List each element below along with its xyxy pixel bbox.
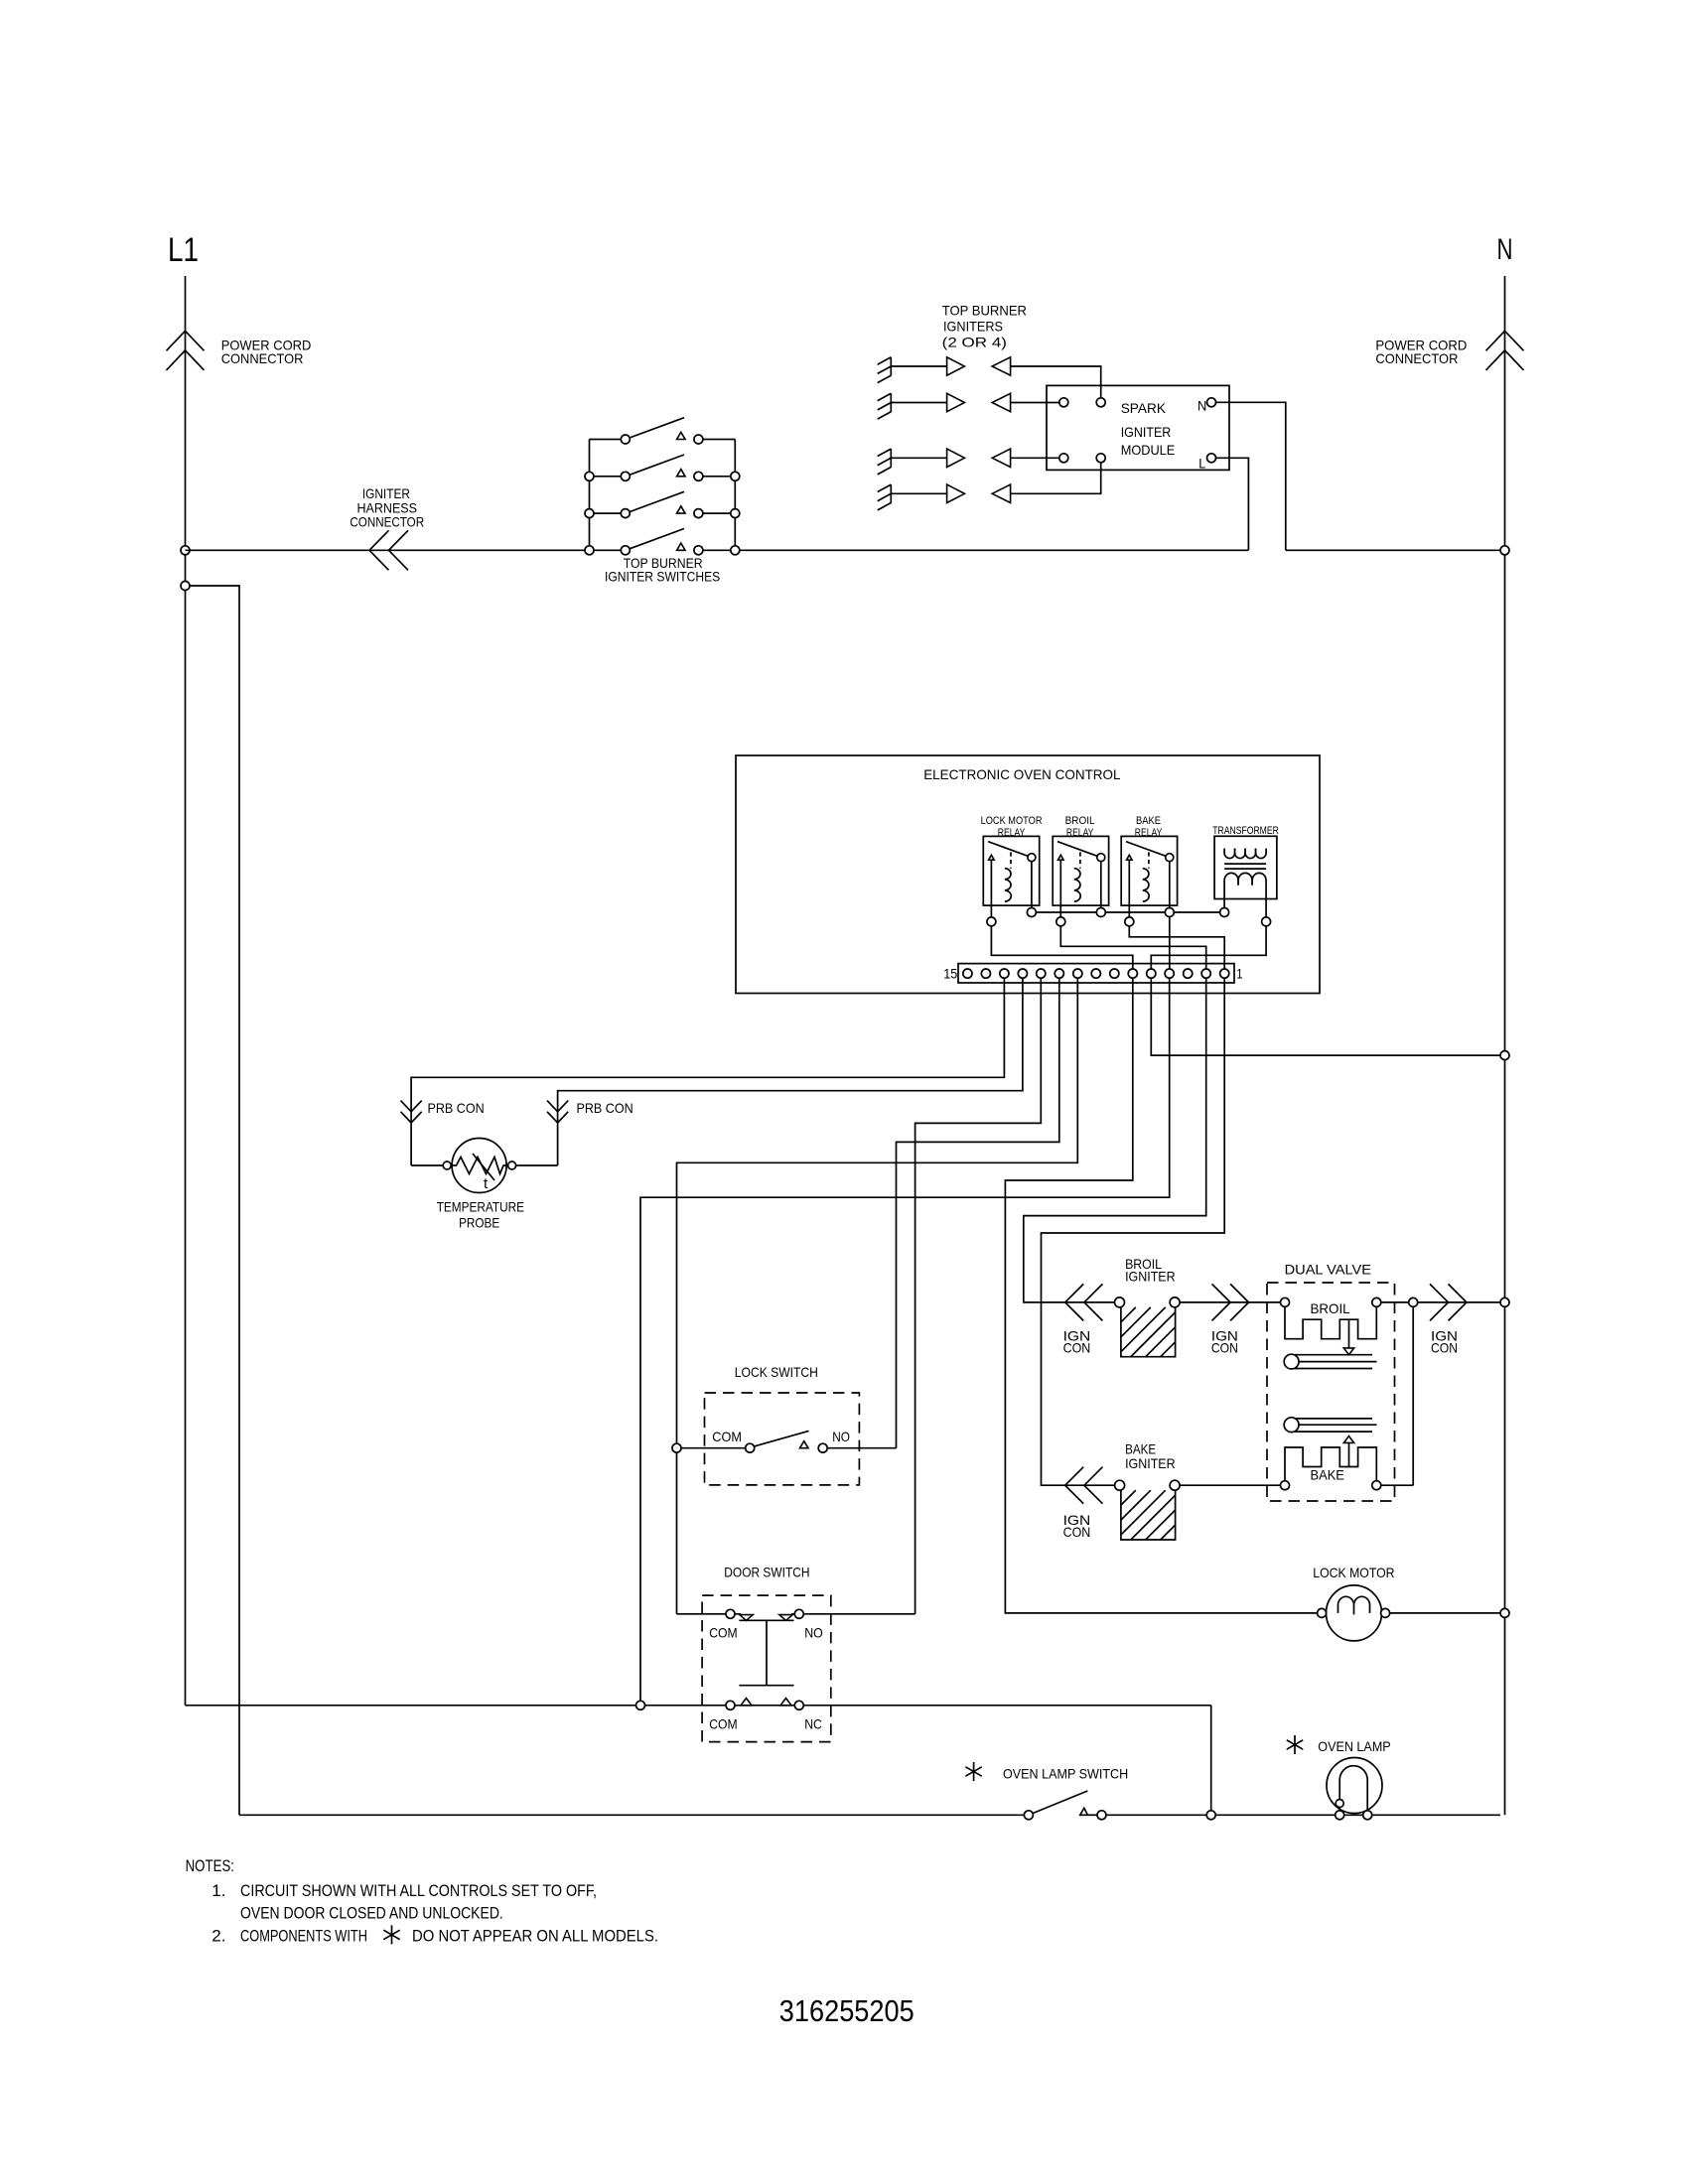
wire terminal 6 to lock motor (1005, 978, 1321, 1613)
wire probe left lead (411, 1164, 443, 1166)
oven lamp switch S7 (1024, 1791, 1106, 1820)
door switch lower NC terminal (794, 1701, 803, 1709)
wire relay common line (relay pivots to transformer) (1032, 911, 1224, 913)
label NO (lock switch) (832, 1429, 850, 1444)
label COM (lock switch) (712, 1429, 742, 1444)
svg-text:LOCK MOTOR: LOCK MOTOR (1313, 1565, 1394, 1580)
temperature probe thermistor mark t (473, 1154, 494, 1192)
svg-text:NOTES:: NOTES: (186, 1856, 234, 1875)
label IGN CON (bake left) (1063, 1512, 1091, 1540)
lock switch blade (755, 1431, 809, 1446)
svg-text:COMPONENTS WITH: COMPONENTS WITH (240, 1926, 367, 1945)
svg-text:TOP BURNER: TOP BURNER (942, 302, 1027, 318)
value label drawing number 316255205 (779, 1993, 914, 2028)
wire lock motor to N rail (1390, 1612, 1500, 1614)
label COM (door lower) (709, 1715, 737, 1731)
transformer T1 primary winding (1224, 849, 1266, 859)
lock motor M1 winding (1338, 1596, 1370, 1614)
label PRB CON (right) (577, 1100, 633, 1116)
transformer T1 secondary winding (1224, 873, 1266, 885)
igniter connector pair row 1 (891, 357, 1010, 375)
svg-text:TRANSFORMER: TRANSFORMER (1212, 825, 1279, 837)
svg-text:CONNECTOR: CONNECTOR (221, 350, 304, 366)
dual valve broil actuator arrow (1343, 1319, 1353, 1355)
wire N vertical rail x=1515.5 (1504, 276, 1506, 1815)
label POWER CORD CONNECTOR (right) (1375, 338, 1467, 367)
lock motor M1 body (1327, 1585, 1382, 1641)
label NC (door lower) (804, 1715, 822, 1731)
wire broil igniter to dual valve (1180, 1301, 1280, 1303)
wire transformer left pin to relay common line (1223, 886, 1225, 908)
dual valve broil gas pipe (1284, 1354, 1376, 1369)
label pin 15 (943, 965, 957, 981)
wire spark module N to N rail drop (1216, 402, 1286, 550)
broil igniter HE1 terminals (1115, 1297, 1181, 1307)
note 1 line 2 (240, 1904, 503, 1923)
switch S4 (top burner igniter switch 4) (590, 529, 736, 555)
wire L1 branch to lower-left rail (190, 586, 239, 1815)
oven lamp lead bead (1336, 1800, 1343, 1808)
label NO (door upper) (804, 1625, 823, 1641)
oven lamp DS1 envelope (1327, 1758, 1382, 1814)
svg-text:2.: 2. (211, 1926, 225, 1945)
igniter electrode E1 (878, 357, 892, 383)
svg-text:PRB CON: PRB CON (577, 1100, 633, 1116)
svg-text:BAKE: BAKE (1311, 1467, 1344, 1483)
wire switch bank right bus (734, 440, 736, 551)
lock switch COM lead (681, 1443, 755, 1452)
label IGN CON (broil left) (1063, 1327, 1091, 1355)
dual valve bake terminals (1281, 1481, 1381, 1490)
label IGN CON (broil right) (1211, 1327, 1238, 1355)
label BAKE IGNITER (1125, 1441, 1176, 1471)
lock switch NO contact triangle (800, 1441, 809, 1448)
svg-text:IGNITER: IGNITER (1121, 424, 1172, 440)
igniter connector pair row 4 (891, 484, 1010, 502)
label BAKE RELAY (1135, 815, 1163, 839)
spark module pin 4 (bottom-right) (1096, 454, 1105, 463)
wire terminal 13 to probe connector (left) (411, 978, 1004, 1165)
label COM (door upper) (709, 1625, 737, 1641)
svg-text:N: N (1497, 233, 1513, 266)
junction N rail at valve row (1500, 1297, 1509, 1306)
label TOP BURNER IGNITER SWITCHES (605, 555, 720, 585)
wire terminal 12 to probe connector (right) (558, 978, 1023, 1165)
label TRANSFORMER (1212, 825, 1279, 837)
node L1 (line) label (168, 231, 199, 269)
wire igniter row4 to spark module pin (1011, 463, 1101, 494)
svg-text:N: N (1197, 397, 1206, 413)
svg-text:RELAY: RELAY (1066, 827, 1094, 839)
junction N rail at bus (1500, 546, 1509, 555)
wire door NC to oven lamp bus (1210, 1706, 1212, 1816)
svg-text:316255205: 316255205 (779, 1993, 914, 2028)
svg-text:COM: COM (712, 1429, 742, 1444)
asterisk (oven lamp switch) (965, 1762, 981, 1781)
spark module pin 3 (bottom-left) (1059, 454, 1068, 463)
wire terminal 5 to N rail (1151, 978, 1500, 1055)
wire igniter row3 to spark module pin (1011, 457, 1059, 459)
svg-text:TEMPERATURE: TEMPERATURE (437, 1199, 524, 1215)
dual valve bake actuator arrow (1343, 1436, 1353, 1467)
EOC terminal strip box (pins 15..1) (958, 964, 1234, 983)
asterisk (oven lamp) (1287, 1735, 1303, 1754)
svg-text:CONNECTOR: CONNECTOR (350, 514, 424, 530)
label OVEN LAMP SWITCH (1003, 1766, 1128, 1782)
wire igniter row2 to spark module pin (1011, 402, 1059, 404)
wire lamp switch to oven lamp (1106, 1814, 1500, 1816)
svg-text:DOOR SWITCH: DOOR SWITCH (724, 1564, 809, 1579)
wire terminal 4 to door switch lower COM line (640, 978, 1170, 1706)
svg-text:LOCK SWITCH: LOCK SWITCH (735, 1364, 818, 1380)
svg-text:DUAL VALVE: DUAL VALVE (1285, 1261, 1371, 1277)
igniter connector pair row 2 (891, 393, 1010, 411)
svg-text:LOCK MOTOR: LOCK MOTOR (981, 815, 1043, 827)
svg-text:DO NOT APPEAR ON ALL MODELS.: DO NOT APPEAR ON ALL MODELS. (412, 1926, 658, 1945)
wire spark module N to N rail (1286, 549, 1500, 551)
relay K2 BROIL RELAY (1053, 836, 1108, 926)
svg-text:15: 15 (943, 965, 957, 981)
wire relay K1 coil to terminal 6 (991, 926, 1132, 969)
dual valve V1 box (1267, 1283, 1395, 1501)
wire valve broil output to IGN CON right (1381, 1301, 1500, 1303)
svg-text:CON: CON (1431, 1339, 1458, 1355)
broil igniter HE1 hatched body (1121, 1306, 1176, 1356)
wire bus from switch bank to spark module L drop (735, 549, 1248, 551)
bake igniter HE2 terminals (1115, 1480, 1181, 1490)
wire terminal 2 to broil igniter (1024, 978, 1206, 1302)
transformer right pin terminal (1262, 917, 1271, 926)
wire relay K3 coil to terminal 1 (1129, 926, 1224, 969)
svg-text:IGNITER SWITCHES: IGNITER SWITCHES (605, 569, 720, 585)
label IGN CON (valve out) (1431, 1327, 1458, 1355)
junction on L1 at main bus (181, 546, 190, 555)
junction on L1 at branch y=590 (181, 582, 190, 591)
svg-text:NO: NO (832, 1429, 850, 1444)
svg-text:CON: CON (1063, 1339, 1091, 1355)
probe connector PRB CON (left chevrons) (401, 1101, 422, 1123)
door switch upper NO lead (794, 1609, 914, 1618)
svg-text:CONNECTOR: CONNECTOR (1375, 350, 1458, 366)
wire bottom rail from L1 branch to lamp switch (239, 1814, 1024, 1816)
spark module pin L (1198, 454, 1215, 472)
label DUAL VALVE (1285, 1261, 1371, 1277)
node N (neutral) label (1497, 233, 1513, 266)
label POWER CORD CONNECTOR (left) (221, 338, 312, 367)
svg-text:PRB CON: PRB CON (428, 1100, 485, 1116)
spark module pin 2 (top-right) (1096, 398, 1105, 407)
svg-text:OVEN LAMP: OVEN LAMP (1318, 1738, 1390, 1754)
electronic oven control EOC box (736, 755, 1320, 994)
bake igniter HE2 hatched body (1121, 1490, 1176, 1540)
relay K3 BAKE RELAY (1121, 836, 1177, 926)
terminal strip pins 15..1 (963, 969, 1229, 978)
switch S2 (top burner igniter switch 2) (590, 455, 736, 480)
label BROIL IGNITER (1125, 1256, 1176, 1285)
svg-text:RELAY: RELAY (998, 827, 1026, 839)
svg-text:NO: NO (804, 1625, 823, 1641)
junction N rail at terminal-5 wire (1500, 1051, 1509, 1060)
wire relay common line to terminal 4 (1169, 917, 1171, 970)
door switch plunger (739, 1620, 793, 1685)
door switch lower COM terminal (726, 1701, 735, 1709)
wire terminal 10 to lock switch NO (897, 978, 1059, 1447)
transformer T1 core (1224, 864, 1266, 869)
door switch upper contact stubs (735, 1613, 794, 1615)
svg-text:OVEN LAMP SWITCH: OVEN LAMP SWITCH (1003, 1766, 1128, 1782)
label BROIL (valve) (1311, 1300, 1350, 1316)
svg-text:(2 OR 4): (2 OR 4) (942, 334, 1007, 349)
svg-text:MODULE: MODULE (1121, 442, 1176, 458)
svg-text:COM: COM (709, 1715, 737, 1731)
igniter electrode E2 (878, 393, 892, 419)
label DOOR SWITCH (724, 1564, 809, 1579)
junction COM rail at lock switch (672, 1443, 681, 1452)
door switch upper contact triangles (740, 1615, 792, 1621)
svg-text:BROIL: BROIL (1311, 1300, 1350, 1316)
switch S1 (top burner igniter switch 1) (590, 418, 736, 444)
lock motor terminals (1318, 1608, 1390, 1617)
svg-text:COM: COM (709, 1625, 737, 1641)
label BAKE (valve) (1311, 1467, 1344, 1483)
wire relay K2 coil to terminal 2 (1060, 926, 1205, 969)
switch S3 (top burner igniter switch 3) (590, 491, 736, 517)
spark module pin 1 (top-left) (1059, 398, 1068, 407)
svg-text:IGNITER: IGNITER (1125, 1455, 1176, 1471)
oven lamp DS1 filament (1339, 1766, 1367, 1811)
dual valve bake solenoid coil (1285, 1447, 1376, 1481)
temperature probe RT1 body (452, 1139, 506, 1193)
wire probe right lead (516, 1164, 558, 1166)
svg-text:RELAY: RELAY (1135, 827, 1163, 839)
junctions on relay common line (1027, 908, 1228, 917)
door switch upper COM lead (677, 1609, 736, 1618)
notes heading (186, 1856, 234, 1875)
wire L1 vertical rail x=186.5 (185, 276, 187, 1706)
junction T4 wire at door lower line (636, 1701, 645, 1709)
note 1 line 1 (211, 1881, 597, 1900)
wire terminal 9 to lock/door switch COM rail (677, 978, 1078, 1614)
svg-text:BAKE: BAKE (1136, 815, 1161, 827)
dual valve broil terminals (1281, 1297, 1381, 1306)
dual valve broil solenoid coil (1285, 1306, 1376, 1338)
temperature probe terminals (443, 1161, 515, 1169)
svg-text:CIRCUIT SHOWN WITH ALL CONTROL: CIRCUIT SHOWN WITH ALL CONTROLS SET TO O… (240, 1881, 597, 1900)
label TEMPERATURE PROBE (437, 1199, 524, 1231)
svg-text:IGNITER: IGNITER (1125, 1269, 1176, 1285)
door switch S6 box (702, 1595, 831, 1742)
label LOCK SWITCH (735, 1364, 818, 1380)
wire main bus L1 to igniter-switch bank (186, 549, 590, 551)
power cord connector P1 (L1 side) (167, 331, 205, 370)
junction valve outputs (1409, 1297, 1418, 1306)
label TOP BURNER IGNITERS (2 OR 4) (942, 302, 1027, 349)
svg-text:PROBE: PROBE (459, 1215, 499, 1231)
label LOCK MOTOR RELAY (981, 815, 1043, 839)
svg-text:L: L (1198, 455, 1205, 471)
dual valve bake gas pipe (1284, 1418, 1376, 1433)
svg-text:OVEN DOOR CLOSED AND UNLOCKED.: OVEN DOOR CLOSED AND UNLOCKED. (240, 1904, 503, 1923)
wire terminal 1 to bake igniter (1042, 978, 1225, 1485)
svg-text:CON: CON (1211, 1339, 1238, 1355)
oven lamp terminals (1336, 1811, 1372, 1820)
spark igniter module U1 box (1047, 385, 1229, 470)
svg-text:1.: 1. (211, 1881, 225, 1900)
wire switch bank left bus (589, 440, 591, 551)
igniter connector IGN CON (bake, left chevrons) (1065, 1467, 1103, 1504)
label BROIL RELAY (1065, 815, 1095, 839)
igniter connector pair row 3 (891, 449, 1010, 467)
wire valve bake output riser (1381, 1306, 1413, 1485)
power cord connector P2 (N side) (1486, 331, 1524, 370)
junction door-NC wire at bottom rail (1206, 1811, 1215, 1820)
wire igniter row1 to spark module pin (1011, 366, 1101, 398)
transformer T1 box (1214, 836, 1277, 898)
junction N rail at lock motor (1500, 1608, 1509, 1617)
wire transformer right pin (1265, 886, 1267, 917)
wire transformer right pin to terminal 5 (1151, 926, 1266, 969)
wire terminal 11 to door switch NO (915, 978, 1042, 1614)
svg-text:CON: CON (1063, 1524, 1091, 1540)
spark module pin N (1197, 397, 1216, 413)
junctions on switch bank buses (585, 472, 740, 555)
relay K1 LOCK MOTOR RELAY (983, 836, 1039, 926)
wire door switch lower COM line from L1 (186, 1705, 1211, 1706)
label PRB CON (left) (428, 1100, 485, 1116)
door switch lower contact triangles (741, 1699, 791, 1706)
lock switch NO lead (818, 1443, 896, 1452)
label OVEN LAMP (1318, 1738, 1390, 1754)
svg-text:ELECTRONIC OVEN CONTROL: ELECTRONIC OVEN CONTROL (923, 766, 1121, 782)
svg-text:1: 1 (1236, 965, 1242, 981)
label pin 1 (1236, 965, 1242, 981)
igniter electrode E3 (878, 449, 892, 475)
wire spark module L to main bus (1216, 458, 1249, 550)
igniter electrode E4 (878, 484, 892, 510)
asterisk (note 2) (383, 1925, 399, 1944)
igniter connector IGN CON (broil, right chevrons) (1212, 1284, 1249, 1320)
lock switch S5 box (705, 1393, 860, 1485)
probe connector PRB CON (right chevrons) (547, 1101, 568, 1123)
label ELECTRONIC OVEN CONTROL (923, 766, 1121, 782)
label IGNITER HARNESS CONNECTOR (350, 485, 424, 529)
svg-text:NC: NC (804, 1715, 822, 1731)
label SPARK IGNITER MODULE (1121, 400, 1176, 458)
igniter harness connector J1 (chevrons on bus) (369, 530, 408, 570)
svg-text:IGNITERS: IGNITERS (943, 318, 1003, 334)
temperature probe resistor element (451, 1158, 507, 1174)
note 2 (211, 1926, 658, 1945)
label LOCK MOTOR (1313, 1565, 1394, 1580)
wire bake igniter to dual valve (1180, 1484, 1280, 1486)
svg-text:BROIL: BROIL (1065, 815, 1095, 827)
svg-text:SPARK: SPARK (1121, 400, 1167, 416)
igniter connector IGN CON (valve out chevrons) (1430, 1284, 1467, 1320)
svg-text:L1: L1 (168, 231, 199, 269)
igniter connector IGN CON (broil, left chevrons) (1065, 1284, 1103, 1320)
